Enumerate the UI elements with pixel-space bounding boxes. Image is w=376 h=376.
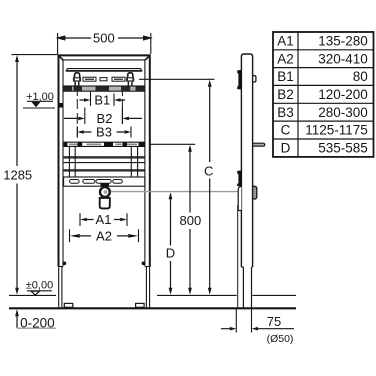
corner gusset top-right	[145, 57, 149, 61]
slotted rail segment 2	[100, 78, 107, 81]
dimension C	[208, 80, 212, 295]
svg-text:80: 80	[353, 69, 368, 84]
svg-text:+1,00: +1,00	[26, 91, 54, 103]
floor line	[9, 307, 296, 309]
dimension B3	[77, 127, 131, 138]
corner gusset top-left	[60, 57, 64, 61]
hook right	[126, 73, 134, 87]
svg-text:B2: B2	[277, 87, 294, 102]
svg-text:B3: B3	[277, 105, 294, 120]
drain circle	[100, 187, 110, 197]
svg-text:B1: B1	[94, 93, 110, 108]
svg-text:135-280: 135-280	[318, 34, 368, 49]
left foot plate	[64, 303, 73, 307]
flush reference line	[151, 143, 196, 145]
extension line B1 right	[113, 94, 115, 106]
crossbar line 3	[64, 170, 145, 171]
drain hole	[104, 190, 108, 194]
table values	[305, 34, 368, 156]
drain cap	[100, 183, 109, 186]
side view foot tube	[241, 267, 252, 308]
slotted adjustment band	[64, 177, 145, 186]
drain centerline gray	[110, 191, 242, 193]
slotted rail segment 1	[83, 77, 96, 81]
vertical struts lower unit	[69, 146, 137, 177]
slotted rail slot line 3	[114, 78, 123, 80]
svg-text:C: C	[204, 164, 213, 179]
dimension 1285	[12, 55, 58, 295]
dimension A2	[70, 229, 139, 242]
svg-text:B1: B1	[277, 69, 294, 84]
slotted rail slot line 1	[85, 78, 94, 80]
extension line B2 right	[121, 91, 123, 124]
bracket reference line top	[139, 78, 214, 80]
dimension 800	[188, 145, 192, 295]
slotted rail segment 3	[112, 77, 125, 81]
dimension 75	[221, 309, 294, 333]
band dark cell 5	[136, 86, 145, 90]
svg-text:500: 500	[93, 30, 115, 45]
slot 1	[70, 180, 80, 184]
wall anchor bolt left rail	[59, 103, 63, 108]
dimension D	[169, 192, 173, 294]
hook left	[73, 73, 81, 87]
left leg cap	[59, 266, 64, 268]
svg-text:A2: A2	[96, 229, 112, 244]
crossbar line 1	[64, 157, 145, 158]
table labels	[277, 34, 294, 156]
extension line B1 left	[90, 91, 92, 106]
dimension B1	[80, 94, 126, 106]
side view wall line	[237, 205, 239, 308]
side view flush pin	[253, 143, 265, 146]
table	[273, 32, 374, 157]
frame outer border front view	[59, 55, 150, 266]
side view lower bracket housing	[238, 187, 241, 211]
side view upper wall bracket	[238, 70, 242, 90]
svg-text:A2: A2	[277, 51, 294, 66]
frame inner border front view	[63, 60, 145, 267]
drain socket	[100, 198, 110, 209]
svg-text:800: 800	[180, 213, 202, 228]
svg-text:D: D	[166, 246, 175, 261]
level line 0 middle	[157, 294, 237, 296]
right leg cap	[145, 266, 150, 268]
dimension B2	[64, 108, 142, 125]
band dark cell 1	[64, 86, 72, 90]
dimension 500	[58, 33, 151, 54]
svg-text:120-200: 120-200	[318, 87, 368, 102]
svg-text:B3: B3	[96, 125, 112, 140]
dimension A1	[80, 213, 127, 226]
level line 0 left	[9, 294, 56, 296]
svg-text:320-410: 320-410	[318, 51, 368, 66]
dimension 0-200	[15, 309, 56, 328]
svg-text:C: C	[281, 123, 291, 138]
crossbar line 2	[64, 162, 145, 164]
level line 0 right	[252, 294, 296, 296]
side view upper right tab	[253, 76, 256, 82]
level mark ±0,00	[27, 291, 52, 295]
band dark cell 2	[74, 86, 83, 90]
svg-text:280-300: 280-300	[318, 105, 368, 120]
svg-text:1125-1175: 1125-1175	[305, 123, 368, 138]
svg-text:535-585: 535-585	[318, 141, 368, 156]
extension line B3 left	[76, 91, 78, 138]
side view rail	[241, 54, 252, 267]
svg-text:A1: A1	[96, 212, 112, 227]
left leg bolt	[63, 262, 67, 266]
level mark +1,00	[23, 101, 55, 108]
side view drain tab	[253, 186, 257, 199]
side view lower wall bracket	[238, 171, 242, 187]
svg-text:0-200: 0-200	[20, 315, 55, 330]
slot 3	[96, 180, 111, 184]
svg-text:75: 75	[267, 314, 281, 329]
svg-text:D: D	[281, 141, 291, 156]
flush pipe mounting bar	[64, 142, 145, 147]
right foot plate	[136, 303, 145, 307]
svg-text:(Ø50): (Ø50)	[267, 333, 294, 345]
slot 4	[113, 180, 123, 184]
right leg bolt	[142, 262, 146, 266]
svg-text:A1: A1	[277, 34, 294, 49]
cross band	[64, 86, 145, 91]
top shelf bar	[66, 69, 142, 71]
svg-text:1285: 1285	[3, 168, 32, 183]
band dark cell 4	[121, 86, 130, 90]
right leg foot tube	[146, 267, 149, 308]
slot 2	[83, 180, 95, 184]
svg-text:±0,00: ±0,00	[26, 279, 53, 291]
band dark cell 3	[96, 86, 110, 90]
left leg foot tube	[59, 267, 62, 308]
